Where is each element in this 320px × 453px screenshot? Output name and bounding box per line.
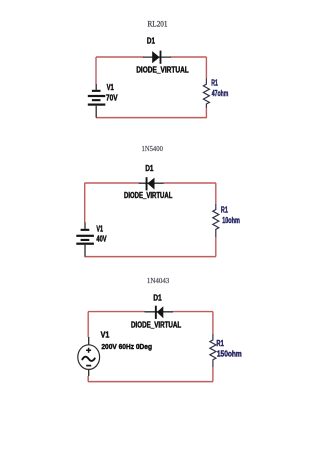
svg-text:1N4043: 1N4043: [147, 277, 170, 285]
wire top circuit2: [85, 182, 216, 184]
resistor R1 circuit1: [203, 79, 209, 108]
ac source V1 circuit3: [78, 337, 100, 376]
svg-text:1N5400: 1N5400: [142, 145, 164, 153]
wire left circuit1: [95, 57, 97, 84]
svg-text:200V 60Hz 0Deg: 200V 60Hz 0Deg: [101, 342, 152, 351]
svg-text:70V: 70V: [106, 93, 118, 103]
wire bottom circuit1: [96, 117, 207, 119]
wire left circuit2: [84, 183, 86, 223]
resistor R1 circuit2: [213, 204, 219, 237]
svg-text:150ohm: 150ohm: [217, 350, 242, 359]
resistor R1 circuit3: [210, 334, 216, 367]
svg-text:D1: D1: [147, 36, 155, 46]
svg-text:D1: D1: [145, 163, 153, 173]
wire right circuit3: [212, 312, 214, 382]
svg-text:47ohm: 47ohm: [212, 89, 229, 98]
diode D1 circuit1: [143, 51, 171, 64]
svg-text:DIODE_VIRTUAL: DIODE_VIRTUAL: [136, 65, 189, 74]
battery V1 circuit2: [76, 222, 94, 256]
wire left circuit3: [87, 312, 89, 338]
diode D1 circuit2: [139, 177, 164, 190]
wire right circuit2: [215, 183, 217, 257]
svg-text:RL201: RL201: [148, 18, 168, 28]
wire bottom circuit3: [88, 376, 213, 382]
svg-text:V1: V1: [96, 223, 103, 233]
svg-text:40V: 40V: [96, 234, 106, 244]
svg-text:D1: D1: [153, 292, 162, 302]
svg-text:R1: R1: [211, 77, 218, 87]
svg-text:10ohm: 10ohm: [222, 216, 240, 225]
wire top circuit3: [88, 311, 213, 313]
diode D1 circuit3: [145, 306, 173, 319]
svg-text:R1: R1: [221, 205, 228, 215]
battery V1 circuit1: [88, 84, 106, 118]
svg-text:DIODE_VIRTUAL: DIODE_VIRTUAL: [131, 320, 181, 329]
svg-text:DIODE_VIRTUAL: DIODE_VIRTUAL: [124, 191, 172, 200]
wire bottom circuit2: [85, 256, 216, 258]
wire right circuit1: [205, 57, 207, 118]
svg-text:V1: V1: [101, 330, 110, 340]
wire top circuit1: [96, 56, 207, 58]
svg-text:R1: R1: [216, 338, 224, 348]
svg-text:V1: V1: [107, 82, 114, 92]
